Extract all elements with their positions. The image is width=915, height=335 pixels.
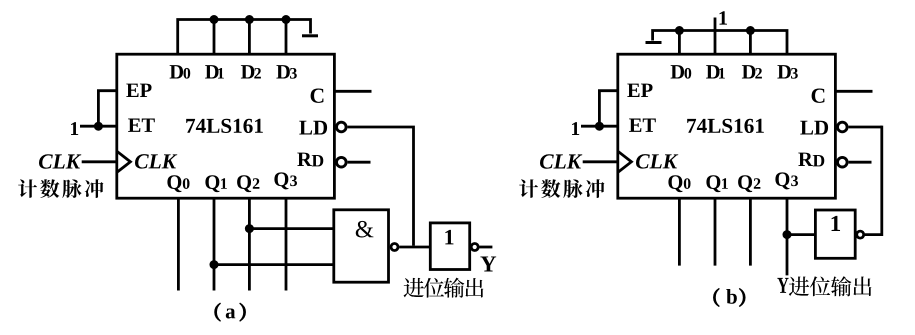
- pin label D2: [742, 65, 755, 78]
- junction dot D1/rail: [210, 15, 219, 24]
- wire: Q0 down (b): [678, 198, 681, 265]
- label CLK external: [39, 154, 53, 168]
- label 74LS161: [186, 119, 195, 133]
- wire: Q1 down (a): [213, 198, 216, 290]
- pin stub RD: [849, 161, 872, 164]
- pin label Q2: [237, 175, 251, 192]
- pin label Q0: [668, 175, 682, 192]
- wire: Q3 to inverter U5 input: [787, 233, 815, 236]
- label 1 (U5): [832, 216, 840, 231]
- pin stub C: [334, 90, 371, 93]
- pin label CLK internal: [135, 154, 149, 168]
- RD pin bubble: [337, 157, 347, 167]
- IC body 74LS161 U4: [618, 54, 836, 198]
- pin label D2: [241, 65, 254, 78]
- pin label D0: [170, 65, 183, 78]
- pin label Q1: [706, 175, 720, 192]
- pin label LD: [800, 121, 813, 135]
- wire: CLK input: [82, 160, 117, 163]
- pin label D3: [276, 65, 289, 78]
- pin label EP: [627, 84, 639, 97]
- pin label LD: [299, 121, 312, 135]
- wire: D1 to logic 1 (b): [714, 18, 717, 55]
- pin label CLK internal: [636, 154, 650, 168]
- wire: Y stub (a): [480, 246, 493, 249]
- junction dot Q2/NAND: [245, 224, 254, 233]
- wire: D0 stub (b): [678, 31, 681, 55]
- CLK dynamic-input chevron: [117, 151, 131, 172]
- LD pin bubble: [838, 122, 848, 132]
- inverter U3 body: [430, 223, 469, 270]
- label 1 (D1 tied high): [719, 11, 726, 24]
- label Y (b): [777, 278, 788, 293]
- label 进位输出 (a): [404, 278, 424, 298]
- caption (a): [215, 303, 221, 321]
- wire: Q2 to NAND input: [249, 227, 333, 230]
- pin label ET: [629, 118, 641, 131]
- wire: D2 stub (b): [749, 31, 752, 55]
- label CLK external: [540, 154, 554, 168]
- junction dot ET/EP: [94, 122, 103, 131]
- label &: [356, 221, 374, 238]
- label 1 (U3): [445, 230, 453, 245]
- wire: NAND output to inverter U3: [399, 246, 430, 249]
- junction dot D0/rail: [675, 26, 684, 35]
- wire: Q3 down (a): [285, 198, 288, 290]
- wire: CLK input: [583, 160, 618, 163]
- wire: Q0 down (a): [177, 198, 180, 290]
- junction dot Q3/inverter: [783, 230, 792, 239]
- junction dot Q1/NAND: [210, 260, 219, 269]
- wire: D2 stub (a): [248, 20, 251, 55]
- logic-low bar (a): [302, 34, 318, 37]
- wire: D3 stub (a): [285, 20, 288, 55]
- pin label RD: [297, 153, 312, 166]
- label Y (a): [480, 256, 496, 271]
- wire: Q1 down (b): [714, 198, 717, 265]
- label 计数脉冲: [519, 179, 538, 198]
- pin label Q0: [167, 175, 181, 192]
- pin label C: [812, 88, 825, 102]
- pin label Q3: [775, 172, 789, 189]
- wire: (b) D rail tied low: [653, 31, 787, 55]
- wire: inverter U5 output up to LD: [865, 126, 882, 235]
- wire: (a) D rail tied low: [178, 20, 311, 55]
- junction dot D2/rail: [746, 26, 755, 35]
- pin label Q2: [738, 175, 752, 192]
- pin label RD: [798, 153, 813, 166]
- inverter U5 output bubble: [857, 231, 864, 238]
- pin label D1: [205, 65, 218, 78]
- label 1 (EP/ET tied high): [572, 122, 579, 135]
- wire: ET node up to EP: [98, 91, 116, 127]
- wire: Q2 down (b): [749, 198, 752, 265]
- pin label Q3: [274, 172, 288, 189]
- wire: LD to feedback (b): [849, 126, 882, 129]
- wire: Q3 down to Y (b): [786, 198, 789, 275]
- pin label D3: [777, 65, 790, 78]
- pin label EP: [126, 84, 138, 97]
- pin stub RD: [348, 161, 371, 164]
- pin label ET: [128, 118, 140, 131]
- pin label D0: [671, 65, 684, 78]
- IC body 74LS161 U1: [117, 54, 335, 198]
- inverter U5 body: [815, 210, 855, 258]
- label 进位输出 (b): [789, 276, 809, 296]
- LD pin bubble: [337, 122, 347, 132]
- pin label Q1: [205, 175, 219, 192]
- NAND U2 output bubble: [391, 244, 398, 251]
- logic-low bar (b): [646, 41, 662, 44]
- junction dot D3/rail: [282, 15, 291, 24]
- wire: LD feedback (a): [348, 127, 414, 246]
- wire: Q1 to NAND input: [214, 263, 334, 266]
- label 1 (EP/ET tied high): [71, 122, 78, 135]
- pin stub C: [835, 90, 872, 93]
- caption (b): [713, 288, 719, 306]
- wire: logic 1 to ET: [80, 125, 117, 128]
- junction dot ET/EP: [595, 122, 604, 131]
- junction dot D2/rail: [245, 15, 254, 24]
- wire: Q2 down (a): [248, 198, 251, 290]
- label 74LS161: [687, 119, 696, 133]
- pin label C: [311, 88, 324, 102]
- RD pin bubble: [838, 157, 848, 167]
- CLK dynamic-input chevron: [618, 151, 632, 172]
- label 计数脉冲: [18, 179, 37, 198]
- pin label D1: [706, 65, 719, 78]
- inverter U3 output bubble: [471, 244, 478, 251]
- wire: logic 1 to ET: [581, 125, 618, 128]
- wire: ET node up to EP: [599, 91, 617, 127]
- NAND gate U2 body: [334, 210, 389, 282]
- wire: D1 stub (a): [213, 20, 216, 55]
